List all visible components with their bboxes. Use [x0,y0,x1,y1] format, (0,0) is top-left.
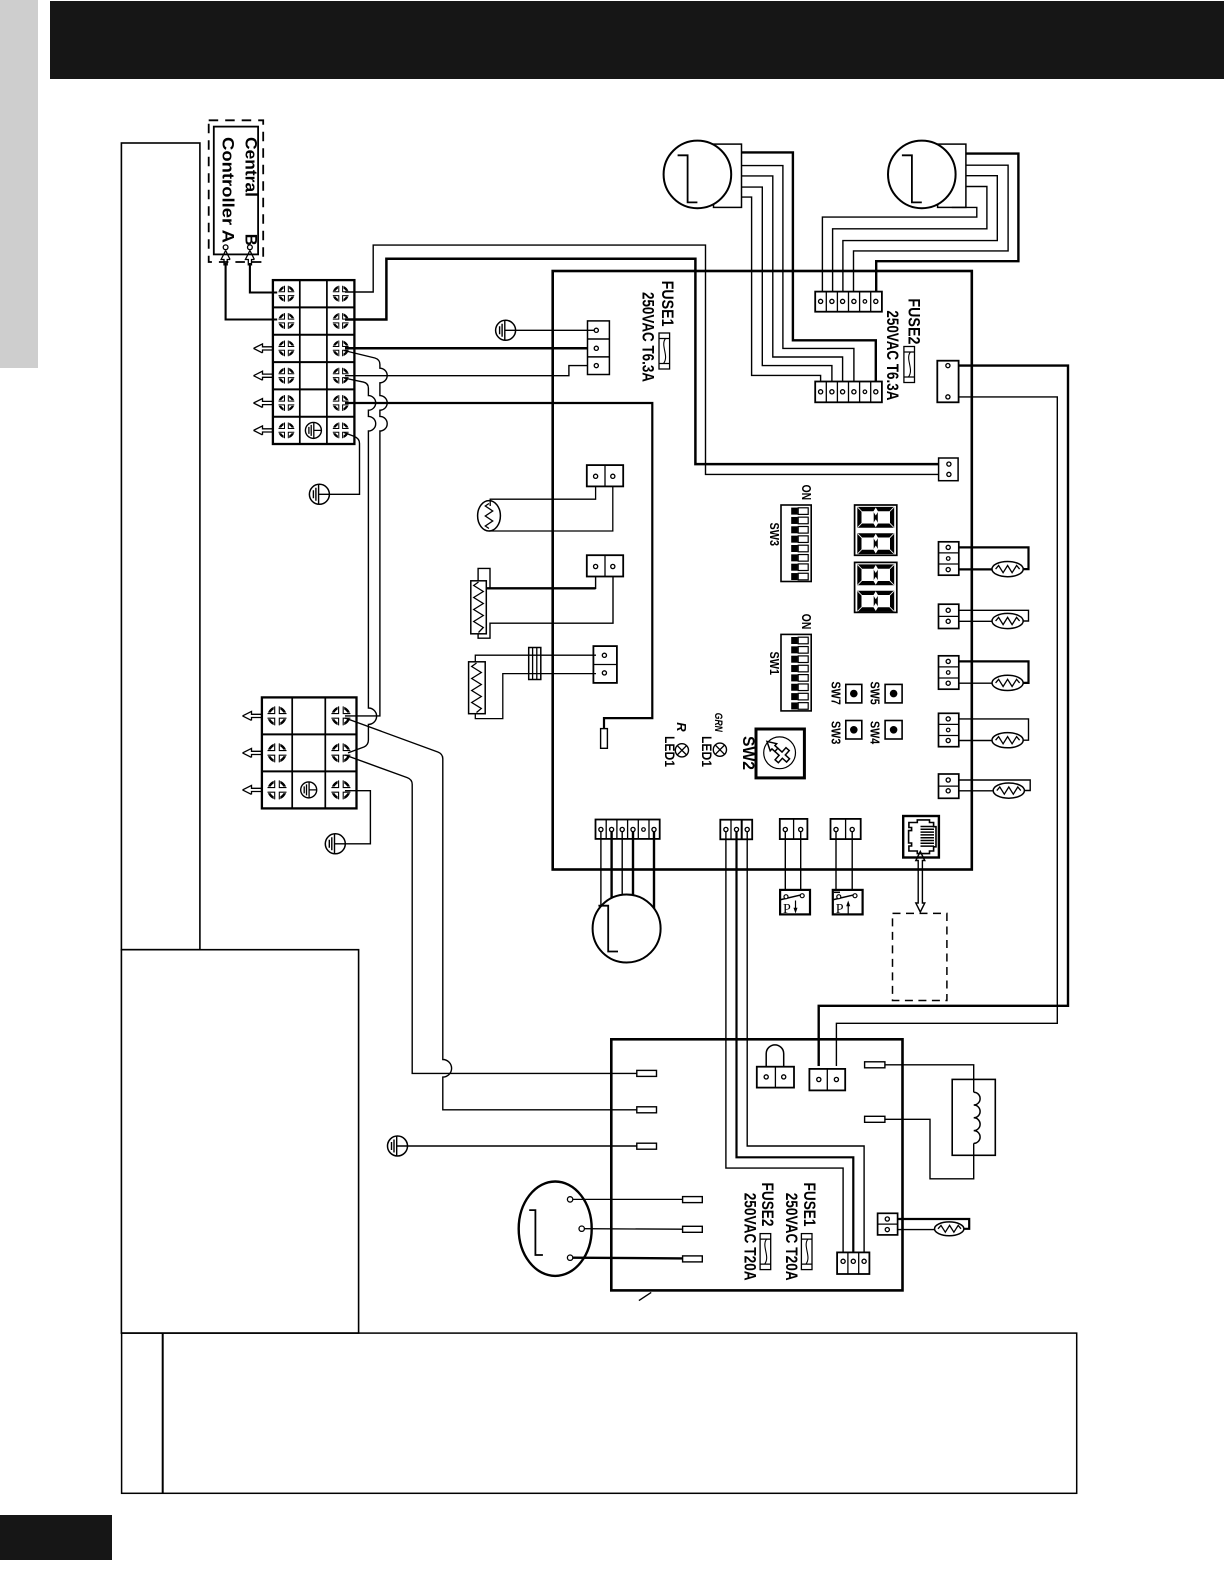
fuse symbol FUSE2 [904,347,915,383]
main control board outline [553,271,972,870]
T2 earth screw [301,782,317,798]
M1 wire 3 to C3 pin3 [742,176,843,389]
M2 wire 4 to C2 pin2 [833,187,987,300]
wire G1 pin1 loop to OV2 [959,547,1029,569]
svg-text:ON: ON [799,485,814,501]
M2 wire 3 to C2 pin3 [843,176,997,299]
svg-text:P: P [836,902,844,917]
jumper arc above C13 [766,1045,784,1067]
C12 wires down to pressure switch P2 [836,831,852,896]
central controller inner box [214,127,258,255]
svg-text:ON: ON [799,614,814,630]
wire G3 pin3 to OV4 [959,682,992,684]
T1 screw R5 [332,394,350,412]
svg-text:SW7: SW7 [828,682,842,705]
3-pin connector G3 with thermistor OV4 [939,656,959,689]
svg-text:250VAC T6.3A: 250VAC T6.3A [883,310,902,400]
wire G4 pin1 loop to OV5 [959,719,1029,740]
7-segment display block D2 [855,562,897,612]
wire T1 row1 to connector C5 pin2 [345,245,946,474]
wire T1 row6 to earth circle EC1 [330,433,360,495]
wire C6 pin2 to OV1 [489,486,613,531]
svg-text:FUSE1: FUSE1 [800,1183,818,1227]
thermistor OV2 [992,562,1023,577]
H1 bottom lead to C7 pin2 [478,577,613,639]
transformer enclosure box [952,1079,995,1155]
T1 earth screw [305,422,321,438]
wire C16 pin1 loop to OV7 (thick) [898,1219,970,1229]
terminal B circle [248,245,253,250]
arrow row5 [254,399,273,408]
wire A to terminal block row2 [226,263,281,320]
T1 screw L2 [277,312,295,330]
wire T2 row3 to earth circle EC2 [345,791,370,844]
svg-text:B: B [241,234,259,246]
C9 wires down to motor M3 [600,831,602,907]
wire G3 pin1 loop to OV4 [959,661,1029,683]
thermistor OV6 [993,783,1024,798]
wire plug pin2 to tab5 [584,1228,682,1231]
black header band [50,1,1224,79]
svg-text:FUSE2: FUSE2 [904,298,923,344]
svg-text:250VAC T20A: 250VAC T20A [740,1193,758,1281]
M1 wire 5 to C3 pin1 [742,197,821,389]
wire plug pin3 to tab6 (thick) [573,1256,683,1259]
6-pin connector C3 [815,382,882,403]
plug wires to tabs [573,1198,683,1200]
M1 wire 1 (thick) to C3 pin6 [742,152,876,389]
dashed option box [893,913,947,1000]
3-pin connector C17 bottom right [837,1252,869,1274]
outdoor unit enclosure tall rectangle [121,143,199,950]
wire EC3 to tab3 [408,1145,637,1147]
button SW4 [885,721,902,740]
svg-text:250VAC T6.3A: 250VAC T6.3A [639,292,658,382]
LED R symbol [675,744,688,757]
C11 wires down to pressure switch P1 [785,831,800,896]
OV1 wires to C6 [490,486,595,506]
lamp connector C13 with jumper arc [757,1067,794,1088]
thermistor OV5 [992,733,1023,748]
bottom wide enclosure rectangle [122,1333,1077,1493]
2-pin connector C6 with thermistor OV1 [587,465,623,486]
tab4 [683,1197,703,1203]
tab5 [683,1226,703,1232]
wire G5 pin1 loop to OV6 [959,780,1030,791]
wire G5 pin2 to OV6 [959,790,993,792]
C10 wires down into power board to C17 [726,831,843,1253]
thermistor OV4 [992,675,1023,690]
7-segment display block D1 [855,505,897,555]
T2 screws left column [266,705,288,727]
6-pin connector C9 [596,820,660,839]
2-pin connector C11 [780,819,808,839]
wire EC4 to C1 [515,329,594,331]
wire T2 row1 to tab2 of power board [345,718,637,1110]
wire T1 row4 to C1 pin3 [345,366,594,376]
M2 wire 2 to C2 pin4 [854,165,1009,299]
2-pin connector C7 with heater H1 [587,555,623,576]
arrow T2 row2 [243,748,262,757]
svg-text:LED1: LED1 [699,736,714,767]
T1 screw L3 [277,339,295,357]
H2 top lead through filter to C8 pin1 [475,655,596,662]
fuse symbol F4 [760,1234,771,1270]
M1 wire 2 to C3 pin4 [742,166,854,389]
3-pin connector G1 with thermistor OV2 [939,542,959,575]
terminal A circle [223,245,228,250]
wire G1 pin3 to OV2 [959,568,992,570]
tabR1 [865,1062,885,1068]
DIP switch SW1 [781,634,811,711]
wire C10 pin3 to C17 pin3 [747,831,864,1253]
T2 field-wiring arrows [243,711,262,720]
fan motor M3 [593,895,661,963]
arrow row6 [254,426,273,435]
T1 screws left column [277,285,295,303]
pressure switch P1 (low) [780,890,810,917]
svg-text:SW3: SW3 [828,721,842,744]
svg-text:Central: Central [241,137,259,197]
DIP switch SW3 [781,505,811,582]
wire T1 row5 to on-board resistor R1 (thick) [345,403,652,729]
2-pin connector C14 [809,1069,845,1091]
LED GRN symbol [713,743,726,756]
pressure switch P2 (high) [833,890,863,917]
svg-text:FUSE2: FUSE2 [758,1183,776,1227]
svg-text:SW1: SW1 [767,652,782,676]
button SW3 [846,721,862,740]
svg-text:250VAC T20A: 250VAC T20A [782,1193,800,1281]
arrow T2 row3 [243,785,262,794]
svg-text:R: R [674,722,689,732]
tab2 [637,1107,657,1113]
3-pin connector G4 with thermistor OV5 [939,713,959,746]
wire C16 pin2 to OV7 [898,1229,935,1231]
T2 screw R2 [330,742,352,764]
button SW7 [846,684,862,703]
RJ45 jack [903,816,939,858]
arrow up into A [221,251,230,266]
wire C4 pin1 down to power board connector C14 pin1 (thick) [819,366,1068,1066]
T1 screw R3 [332,339,350,357]
filter block [529,648,541,680]
T2 screw L2 [266,742,288,764]
wire T1 row4 branch down to T2 row2 [344,378,377,753]
terminal block T1 [273,280,355,444]
bottom enclosure divider [162,1333,164,1493]
wire transformer return to tabR2 [885,1119,974,1179]
arrow up into B [245,251,254,266]
M2 wire 5 from square bottom to C2 pin1 [822,207,976,299]
M2 wire 1 (thick) to C2 pin6 [876,154,1018,299]
svg-text:GRN: GRN [712,713,724,733]
svg-text:SW4: SW4 [868,721,882,744]
M1 wire 4 to C3 pin2 [742,187,832,389]
wire G2 pin1 loop to OV3 [959,610,1029,621]
black footer block [0,1515,112,1560]
heater H1 [471,581,487,634]
H1 top lead to C7 pin1 (thick wire) [478,568,595,588]
T1 screws right column [332,285,350,303]
wire H1 to C7 pin1 (thick) [487,587,596,589]
wire T1 row2 to connector C5 pin1 (thick) [345,259,946,464]
T2 screw R3 [330,779,352,801]
earth circle EC1 [309,484,329,504]
T1 field-wiring arrows rows 3-6 [254,344,273,353]
wire G4 pin3 to OV5 [959,740,992,742]
wire B to terminal block row1 [250,263,281,293]
fuse symbol F3 [801,1234,812,1270]
2-pin connector C8 with heater H2 and filter [593,646,617,683]
tabR2 [865,1116,885,1122]
heater H2 [469,662,486,714]
OV1 room thermistor [478,501,501,531]
thermistor OV7 [935,1222,964,1236]
svg-text:LED1: LED1 [662,736,677,767]
2-pin connector C16 with thermistor OV7 [878,1213,898,1235]
transformer circuit [885,1065,974,1092]
wire T1 row3 to 3pin connector C1 pin2 (thick) [345,347,594,350]
3-pin connector C10 [720,820,752,840]
2-pin connector C5 right edge [939,458,959,481]
wire G2 pin2 to OV3 [959,620,992,622]
T2 screw L3 [266,779,288,801]
earth circle EC2 [325,834,345,854]
earth circle EC3 with wire to tab3 [388,1136,408,1156]
expansion double arrow between RJ45 and dashed box [916,852,925,913]
svg-text:SW5: SW5 [868,682,882,705]
2-pin connector C4 on right of board [937,361,958,403]
T1 screw L4 [277,367,295,385]
2-pin connector C12 [831,819,861,839]
fuse symbol FUSE1 [659,333,670,369]
2-pin connector G2 with thermistor OV3 [939,604,959,628]
button SW5 [885,684,902,703]
svg-text:P: P [783,902,791,917]
terminal block T2 [262,697,357,808]
grey side tab [0,0,38,368]
lower-left enclosure rectangle [121,950,358,1333]
6-pin connector C2 [815,292,882,312]
2-pin connector G5 with thermistor OV6 [939,774,959,798]
arrow row4 [254,371,273,380]
power board outline [611,1039,902,1290]
tab1 [637,1070,657,1076]
T1 screw L5 [277,394,295,412]
T1 screw R2 [332,312,350,330]
transformer coil [974,1092,980,1143]
wire C4 pin2 down to power board connector C14 pin2 [836,397,1057,1066]
rotary switch SW2 [756,729,804,778]
T1 screw R4 [332,367,350,385]
wire T2 row2 to tab1 of power board [345,755,637,1073]
tab3 [637,1143,657,1149]
T1 screw L6 [277,421,295,439]
wire C10 pin2 to C17 pin2 (thick) [737,831,854,1253]
central controller dashed box [209,120,264,262]
svg-text:SW3: SW3 [767,523,782,547]
resistor R1 [601,729,608,749]
wire T1 row3 branch down to T2 row1 [344,351,387,716]
diagonal tick at power board bottom left [639,1292,651,1300]
svg-text:Controller A: Controller A [218,137,236,243]
tab6 [683,1256,703,1262]
T1 screw R6 [332,421,350,439]
3-pin connector C1 [588,321,610,375]
svg-text:FUSE1: FUSE1 [658,281,677,327]
earth circle EC4 with wire to C1 pin1 [496,320,516,340]
thermistor OV3 [992,613,1023,628]
T2 screws right column [330,705,352,727]
H2 bottom lead to C8 pin2 [475,674,596,719]
